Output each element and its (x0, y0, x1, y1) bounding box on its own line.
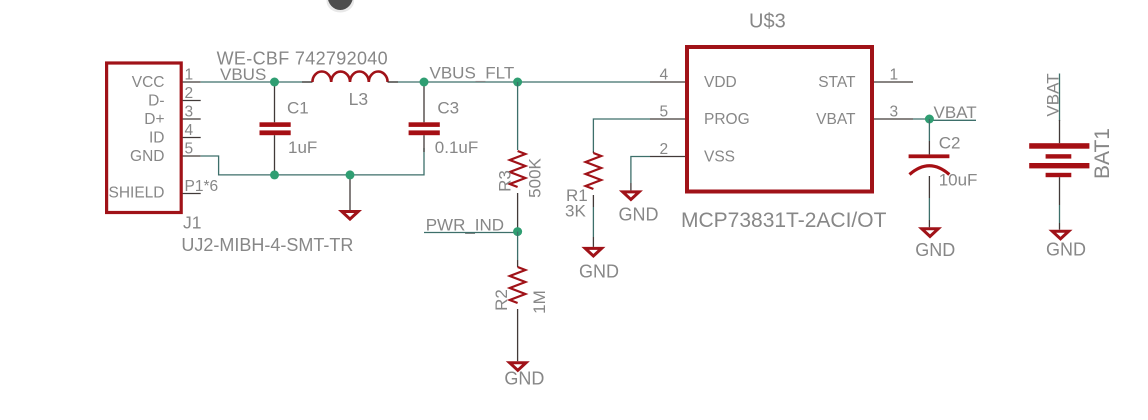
junction dot bus/GND (346, 170, 355, 179)
svg-text:2: 2 (660, 141, 669, 158)
IC pin PROG stub (650, 118, 685, 120)
J1 pin 5 stub (183, 155, 201, 157)
connector J1 body (107, 63, 182, 213)
svg-text:3: 3 (890, 104, 899, 121)
junction dot bus/C1 bottom (270, 170, 279, 179)
svg-text:D+: D+ (144, 111, 164, 128)
svg-text:5: 5 (660, 104, 669, 121)
ground symbol below C1/C3 bus (342, 175, 358, 219)
capacitor C3 (409, 82, 440, 152)
svg-text:1: 1 (185, 67, 194, 84)
junction dot PWR_IND (513, 227, 522, 236)
svg-text:STAT: STAT (818, 74, 856, 91)
svg-text:UJ2-MIBH-4-SMT-TR: UJ2-MIBH-4-SMT-TR (181, 235, 353, 255)
svg-text:C2: C2 (939, 133, 961, 152)
ground symbol below R2 (510, 363, 526, 371)
svg-text:MCP73831T-2ACI/OT: MCP73831T-2ACI/OT (681, 209, 887, 232)
svg-text:P1*6: P1*6 (185, 178, 219, 195)
IC pin STAT stub (874, 81, 913, 83)
resistor R2 (510, 232, 526, 362)
IC pin VDD stub (650, 81, 685, 83)
decorative top circle (327, 0, 355, 13)
svg-text:VDD: VDD (704, 74, 737, 91)
wire VBUS_FLT net (388, 81, 650, 83)
svg-text:WE-CBF 742792040: WE-CBF 742792040 (217, 48, 388, 68)
wire pin3 to VBAT node (913, 118, 929, 120)
svg-text:3: 3 (185, 104, 194, 121)
svg-text:3K: 3K (565, 202, 586, 221)
svg-text:VBAT: VBAT (934, 103, 977, 122)
J1 pin 2 stub (183, 100, 201, 102)
ground symbol below BAT1 (1052, 231, 1068, 239)
resistor R3 (510, 82, 526, 232)
net label VBAT vertical line (1059, 74, 1061, 122)
resistor R1 (586, 119, 650, 247)
capacitor C1 (260, 82, 291, 175)
svg-text:2: 2 (185, 85, 194, 102)
svg-text:4: 4 (185, 122, 194, 139)
ground symbol below R1 (585, 248, 601, 256)
svg-text:GND: GND (130, 148, 164, 165)
svg-text:GND: GND (579, 262, 619, 282)
wire VSS net (631, 157, 650, 184)
IC pin VSS stub (650, 156, 685, 158)
svg-text:1uF: 1uF (288, 138, 317, 157)
svg-text:U$3: U$3 (749, 11, 786, 33)
ground symbol VSS (623, 192, 639, 200)
svg-text:10uF: 10uF (939, 171, 978, 190)
junction dot VBUS_FLT/R3 (513, 78, 522, 87)
J1 pin 1 stub (183, 81, 201, 83)
svg-text:VBAT: VBAT (816, 111, 856, 128)
svg-text:1M: 1M (530, 290, 549, 314)
net label VBAT underline (929, 119, 976, 121)
IC U$3 body (687, 47, 872, 192)
svg-text:GND: GND (504, 369, 544, 389)
svg-text:PROG: PROG (704, 111, 750, 128)
svg-text:VCC: VCC (132, 74, 165, 91)
svg-text:ID: ID (149, 130, 165, 147)
svg-text:500K: 500K (526, 157, 545, 197)
svg-text:GND: GND (619, 205, 659, 225)
wire GND step from J1 pin5 (201, 148, 424, 175)
svg-text:5: 5 (185, 141, 194, 158)
junction dot VBUS/C1 (270, 78, 279, 87)
J1 pin 4 stub (183, 137, 201, 139)
svg-text:L3: L3 (349, 89, 368, 109)
capacitor C2 (polarized) (909, 119, 950, 227)
svg-text:D-: D- (148, 93, 164, 110)
battery BAT1 (1029, 120, 1089, 230)
junction dot VBAT (925, 115, 934, 124)
svg-text:GND: GND (915, 240, 955, 260)
svg-text:R2: R2 (492, 289, 511, 311)
svg-text:VBUS_FLT: VBUS_FLT (430, 63, 515, 82)
svg-text:PWR_IND: PWR_IND (426, 216, 504, 235)
J1 pin 3 stub (183, 118, 201, 120)
svg-text:0.1uF: 0.1uF (435, 138, 478, 157)
svg-text:C1: C1 (287, 98, 309, 117)
svg-text:C3: C3 (437, 98, 459, 117)
wire VBUS top net (201, 81, 313, 83)
J1 pin 6 stub (183, 193, 201, 195)
inductor L3 (302, 72, 398, 83)
junction dot VBUS_FLT/C3 (420, 78, 429, 87)
net label PWR_IND underline (424, 232, 518, 234)
wire VSS gnd pin (630, 183, 632, 190)
svg-text:BAT1: BAT1 (1091, 128, 1114, 179)
svg-text:1: 1 (890, 67, 899, 84)
IC pin VBAT stub (874, 118, 913, 120)
svg-text:GND: GND (1046, 240, 1086, 260)
svg-text:R3: R3 (496, 170, 515, 192)
svg-text:4: 4 (660, 67, 669, 84)
ground symbol below C2 (922, 229, 938, 237)
svg-text:SHIELD: SHIELD (109, 185, 165, 202)
svg-text:J1: J1 (183, 212, 201, 232)
svg-text:VSS: VSS (704, 149, 735, 166)
